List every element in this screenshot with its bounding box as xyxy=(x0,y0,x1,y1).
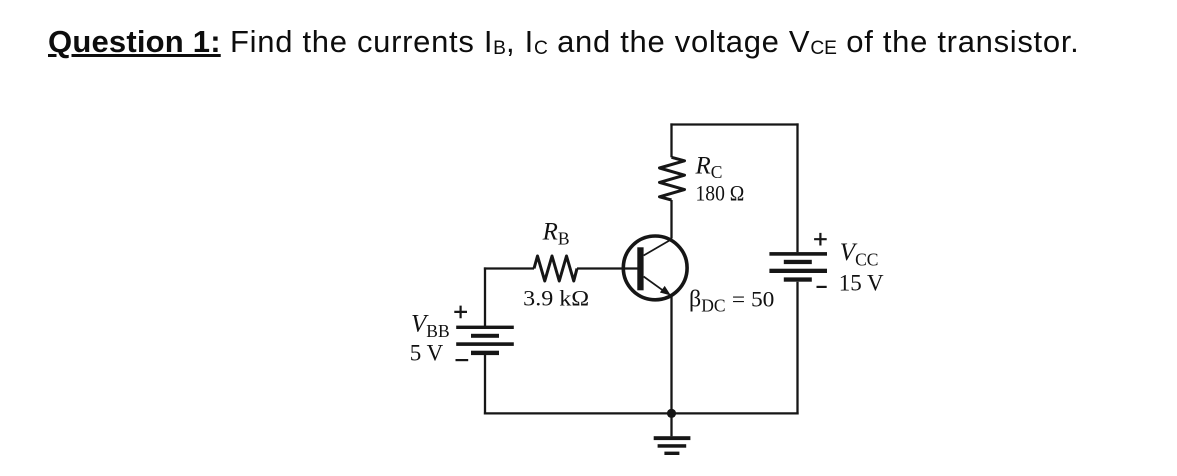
ground xyxy=(654,413,691,455)
svg-text:VBB: VBB xyxy=(411,310,450,341)
plus sign VBB xyxy=(454,306,467,319)
wire Rc top lead xyxy=(670,123,672,157)
svg-text:RB: RB xyxy=(542,219,570,249)
battery VBB xyxy=(456,326,514,356)
transistor Q1 xyxy=(623,236,687,300)
wire top: collector branch to Vcc branch xyxy=(670,123,798,125)
svg-text:15 V: 15 V xyxy=(839,270,884,295)
svg-text:VCC: VCC xyxy=(840,239,879,269)
minus sign VBB xyxy=(456,359,469,361)
wire left vertical upper xyxy=(484,267,486,326)
svg-text:5 V: 5 V xyxy=(410,341,444,366)
wire VCC bottom lead xyxy=(796,282,798,415)
svg-text:βDC= 50: βDC= 50 xyxy=(689,287,774,316)
resistor RC xyxy=(660,157,685,200)
wire bottom xyxy=(484,412,799,414)
battery VCC xyxy=(769,252,827,282)
wire base xyxy=(577,267,638,269)
wire emitter vertical xyxy=(670,296,672,415)
wire right vertical upper xyxy=(796,123,798,252)
resistor RB xyxy=(534,256,577,281)
svg-text:180 Ω: 180 Ω xyxy=(696,181,745,206)
junction node xyxy=(667,409,676,418)
wire collector lead xyxy=(670,200,672,239)
svg-text:RC: RC xyxy=(695,153,723,183)
wire RB left horizontal xyxy=(484,267,534,269)
wire VBB bottom lead xyxy=(484,355,486,415)
minus sign VCC xyxy=(817,286,827,288)
title xyxy=(48,24,1079,60)
plus sign VCC xyxy=(814,233,827,246)
svg-text:3.9 kΩ: 3.9 kΩ xyxy=(523,285,589,310)
